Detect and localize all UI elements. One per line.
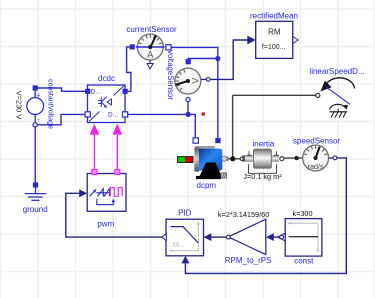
- svg-text:const: const: [294, 257, 314, 266]
- svg-text:voltageSensor: voltageSensor: [166, 50, 175, 100]
- svg-text:RPM_to_rPS: RPM_to_rPS: [225, 256, 272, 265]
- svg-text:-: -: [37, 115, 40, 124]
- svg-text:PID: PID: [178, 209, 192, 218]
- svg-text:RM: RM: [268, 28, 281, 37]
- svg-text:rectifiedMean: rectifiedMean: [250, 11, 298, 20]
- svg-text:linearSpeedD...: linearSpeedD...: [309, 67, 364, 76]
- svg-text:V=230 V: V=230 V: [15, 91, 24, 120]
- svg-text:constantVoltage: constantVoltage: [47, 79, 54, 129]
- svg-text:speedSensor: speedSensor: [293, 137, 340, 146]
- svg-text:J=0.1 kg m²: J=0.1 kg m²: [243, 172, 282, 181]
- svg-text:ground: ground: [23, 205, 48, 214]
- svg-text:D...: D...: [91, 89, 101, 96]
- svg-text:f=100...: f=100...: [262, 44, 286, 51]
- svg-text:D...: D...: [108, 111, 118, 118]
- svg-text:dcdc: dcdc: [98, 74, 115, 83]
- svg-text:dcpm: dcpm: [197, 181, 217, 190]
- svg-text:inertia: inertia: [253, 139, 275, 148]
- svg-text:k=300: k=300: [292, 209, 312, 218]
- svg-text:currentSensor: currentSensor: [126, 25, 177, 34]
- svg-text:A: A: [147, 50, 153, 60]
- svg-text:rad/s: rad/s: [308, 162, 324, 171]
- svg-text:.M...: .M...: [171, 242, 185, 249]
- svg-text:pwm: pwm: [97, 219, 114, 228]
- svg-text:+: +: [37, 92, 41, 99]
- svg-text:V: V: [191, 78, 201, 84]
- svg-text:k=2*3.14159/60: k=2*3.14159/60: [218, 210, 269, 219]
